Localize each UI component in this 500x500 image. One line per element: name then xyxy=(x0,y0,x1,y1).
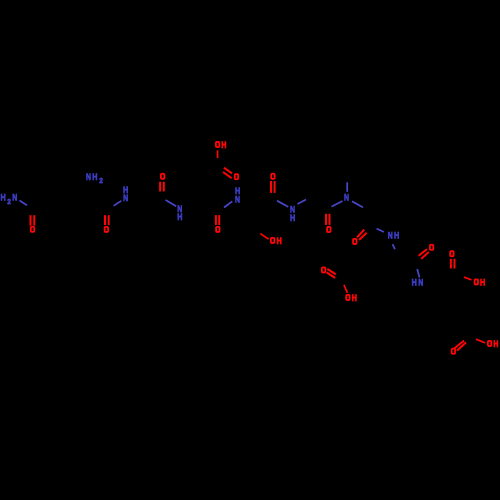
svg-text:H: H xyxy=(290,213,295,224)
svg-text:H: H xyxy=(493,339,498,350)
svg-text:H: H xyxy=(412,278,417,289)
svg-text:H: H xyxy=(480,277,485,288)
svg-text:H: H xyxy=(394,231,399,242)
svg-text:N: N xyxy=(418,278,423,289)
svg-text:N: N xyxy=(12,192,17,203)
svg-text:H: H xyxy=(1,192,6,203)
svg-text:N: N xyxy=(123,193,128,204)
svg-text:H: H xyxy=(352,293,357,304)
svg-text:2: 2 xyxy=(99,176,103,185)
svg-text:H: H xyxy=(177,212,182,223)
svg-text:N: N xyxy=(86,172,91,183)
svg-text:H: H xyxy=(92,172,97,183)
svg-text:H: H xyxy=(221,140,226,151)
svg-text:N: N xyxy=(235,195,240,206)
svg-text:N: N xyxy=(344,192,349,203)
svg-text:2: 2 xyxy=(7,197,11,206)
svg-text:H: H xyxy=(277,236,282,247)
svg-text:N: N xyxy=(388,231,393,242)
